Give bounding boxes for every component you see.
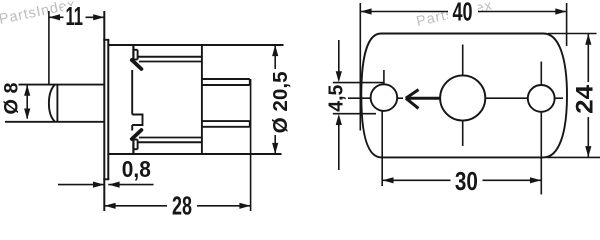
dim 0,8 right tail bbox=[108, 184, 153, 186]
dim 40 arrowhead left bbox=[361, 8, 372, 14]
terminal upper end cap bbox=[249, 79, 251, 85]
clip top barb bbox=[132, 60, 142, 69]
centerline right hole top bbox=[540, 62, 542, 85]
dim 11 line right part bbox=[85, 16, 104, 18]
terminal upper top bbox=[202, 78, 250, 80]
dim 4,5 arrowhead up bbox=[336, 114, 342, 125]
centerline horizontal seg 1 bbox=[348, 97, 371, 99]
dim 28 line bbox=[104, 205, 250, 207]
centerline horizontal seg 3 bbox=[485, 97, 528, 99]
dim 4,5 arrowhead down bbox=[336, 71, 342, 82]
dim 4,5 extension bottom bbox=[333, 113, 376, 115]
svg-text:0,8: 0,8 bbox=[122, 156, 151, 182]
white gap for 24 label bbox=[574, 82, 595, 117]
svg-text:28: 28 bbox=[172, 191, 192, 217]
clip top leg right stroke bbox=[137, 50, 139, 60]
dim 28 extension right bbox=[250, 79, 252, 211]
svg-text:24: 24 bbox=[572, 84, 599, 114]
dim 0,8 left tail bbox=[58, 184, 104, 186]
body bottom edge with Ø20.5 extension bbox=[108, 153, 281, 155]
white gap for 30 label bbox=[451, 171, 483, 191]
plunger bottom edge bbox=[5, 121, 105, 123]
dim 40 extension left bbox=[359, 3, 361, 131]
dim 4,5 shaft top bbox=[338, 40, 340, 72]
clip bottom leg bottom cap bbox=[133, 148, 137, 150]
clip bottom leg top cap bbox=[133, 139, 137, 141]
hole left bbox=[371, 84, 398, 111]
dim 24 extension bottom bbox=[547, 156, 600, 158]
dim 30 arrowhead right bbox=[530, 177, 541, 183]
dim 40 extension right bbox=[566, 3, 568, 46]
centerline middle hole bottom bbox=[462, 121, 464, 146]
centerline horizontal seg 2 bbox=[398, 97, 404, 99]
svg-text:Ø 8: Ø 8 bbox=[1, 82, 23, 114]
plunger top edge bbox=[19, 84, 105, 86]
marker arrow at left hole bbox=[406, 90, 440, 109]
dim 0,8 arrowhead right bbox=[93, 182, 104, 188]
centerline right hole bottom and 30-dim extension bbox=[540, 112, 542, 195]
centerline horizontal seg 4 bbox=[555, 97, 563, 99]
svg-text:30: 30 bbox=[455, 166, 478, 196]
body inner line upper 2 bbox=[139, 61, 202, 63]
dim 11 extension left bbox=[48, 11, 50, 85]
dim 4,5 extension top bbox=[333, 82, 384, 84]
svg-text:11: 11 bbox=[65, 1, 83, 31]
clip bottom leg left stroke bbox=[132, 140, 134, 155]
flange bottom cap bbox=[103, 178, 109, 180]
svg-text:40: 40 bbox=[453, 0, 473, 26]
dim 28 arrowhead left bbox=[105, 203, 116, 209]
svg-text:Ø 20,5: Ø 20,5 bbox=[269, 71, 292, 133]
white gap for 11 label bbox=[64, 6, 86, 21]
flange back face bbox=[107, 40, 109, 180]
body interior vertical upper bbox=[131, 70, 133, 115]
dim 24 arrowhead down bbox=[585, 146, 591, 157]
side tab bbox=[132, 115, 142, 126]
body interior vertical lower bbox=[131, 125, 133, 131]
terminal lower bottom bbox=[202, 126, 250, 128]
dim 11 line left part bbox=[49, 16, 64, 18]
dim Ø20.5 arrowhead up bbox=[272, 45, 278, 56]
centerline left hole top bbox=[383, 70, 385, 84]
dim 4,5 shaft bottom bbox=[338, 124, 340, 170]
dim 24 arrowhead up bbox=[585, 34, 591, 45]
dim Ø8 arrowhead down bbox=[24, 109, 30, 120]
dim 11 arrowhead right bbox=[93, 14, 104, 20]
dim 11 arrowhead left bbox=[49, 14, 60, 20]
dim Ø8 arrowhead up bbox=[24, 85, 30, 96]
body right edge bbox=[201, 45, 203, 154]
white gap for 40 label bbox=[448, 3, 478, 20]
body inner line upper 1 bbox=[138, 56, 202, 58]
white gap for Ø20,5 label bbox=[270, 69, 291, 135]
terminal upper bottom bbox=[202, 84, 250, 86]
centerline middle hole top bbox=[462, 45, 464, 76]
body inner line lower 1 bbox=[138, 141, 202, 143]
body top edge with Ø20.5 extension bbox=[108, 44, 283, 46]
dim 40 arrowhead right bbox=[555, 8, 566, 14]
flange front face and 28-dim extension bbox=[103, 11, 105, 211]
dim 28 arrowhead right bbox=[239, 203, 250, 209]
dim 40 line bbox=[360, 11, 566, 13]
hole middle bbox=[440, 75, 485, 120]
clip bottom barb bbox=[132, 130, 142, 139]
hole right bbox=[528, 85, 555, 112]
terminal lower end cap bbox=[249, 121, 251, 127]
svg-text:4,5: 4,5 bbox=[324, 85, 347, 112]
plate outline bbox=[361, 34, 567, 158]
clip bottom leg right stroke bbox=[137, 140, 139, 150]
dim 24 line bbox=[587, 34, 589, 158]
clip top leg top cap bbox=[133, 49, 137, 51]
plunger cap arc bbox=[49, 85, 55, 122]
flange top cap bbox=[103, 39, 109, 41]
white gap for 28 label bbox=[167, 196, 197, 215]
dim Ø20.5 arrowhead down bbox=[272, 143, 278, 154]
centerline left hole bottom and 30-dim extension bbox=[381, 111, 383, 186]
dim 0,8 arrowhead left bbox=[109, 182, 120, 188]
dim 30 arrowhead left bbox=[382, 177, 393, 183]
body inner line lower 2 bbox=[139, 137, 202, 139]
clip top leg left stroke bbox=[132, 45, 134, 60]
dim 24 extension top bbox=[548, 33, 597, 35]
clip top leg bottom cap bbox=[133, 59, 137, 61]
plunger cap face bbox=[56, 85, 58, 122]
terminal lower top bbox=[202, 120, 250, 122]
dim Ø8 shaft bbox=[26, 85, 28, 119]
dim Ø20.5 shaft bbox=[274, 45, 276, 154]
dim 30 line bbox=[382, 179, 541, 181]
